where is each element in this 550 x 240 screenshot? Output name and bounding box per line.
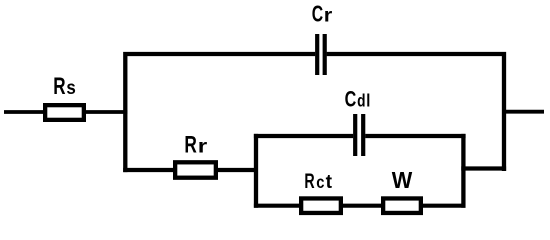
resistor Rct: [301, 198, 341, 213]
wire Rr to inner box: [214, 168, 258, 172]
label Rr: [184, 132, 207, 158]
wire inner top right of Cdl: [365, 134, 465, 138]
wire inner right vertical: [461, 134, 465, 208]
wire branch to Rr: [123, 168, 177, 172]
wire Rct to W: [339, 204, 385, 208]
svg-text:l: l: [366, 91, 370, 111]
label W: [392, 168, 413, 194]
wire W to inner right vertical: [419, 204, 466, 208]
label Rs: [53, 74, 76, 100]
label Cr: [312, 2, 333, 28]
svg-text:r: r: [324, 5, 333, 27]
wire inner box to right trunk: [461, 166, 506, 170]
resistor W (Warburg): [383, 198, 421, 213]
wire inner bottom left segment: [254, 204, 303, 208]
label Cdl: [345, 88, 371, 112]
svg-text:c: c: [316, 173, 324, 193]
wire input left: [4, 110, 47, 114]
label Rct: [304, 169, 332, 193]
resistor Rs: [45, 105, 84, 120]
capacitor Cdl: [355, 114, 363, 156]
svg-text:t: t: [326, 172, 333, 193]
wire inner top left of Cdl: [254, 134, 353, 138]
svg-text:s: s: [66, 77, 75, 98]
capacitor Cr: [317, 34, 325, 75]
wire top-right segment and right trunk: [327, 54, 504, 171]
svg-text:R: R: [184, 132, 197, 158]
wire Rs to left trunk: [84, 110, 127, 114]
wire inner left vertical: [254, 134, 258, 208]
svg-text:R: R: [53, 74, 65, 100]
wire output right: [504, 110, 544, 114]
svg-text:C: C: [312, 2, 323, 28]
svg-text:C: C: [345, 88, 357, 112]
resistor Rr: [175, 162, 216, 177]
wire left trunk and top-left segment: [125, 54, 315, 172]
svg-text:r: r: [198, 135, 208, 157]
svg-text:W: W: [392, 168, 413, 194]
svg-text:d: d: [357, 92, 365, 111]
svg-text:R: R: [304, 169, 314, 192]
